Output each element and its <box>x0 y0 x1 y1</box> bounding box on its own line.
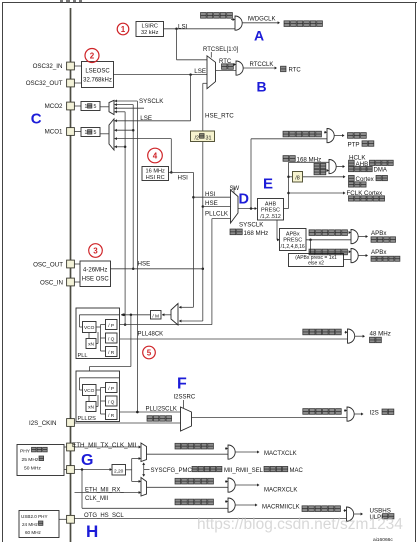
svg-text:HSE OSC: HSE OSC <box>82 277 110 283</box>
svg-text:APBx: APBx <box>371 249 387 256</box>
svg-text:LSE: LSE <box>194 68 206 75</box>
svg-text:MACRXCLK: MACRXCLK <box>264 487 297 493</box>
svg-text:SYSCFG_PMC: SYSCFG_PMC <box>151 468 193 474</box>
svg-text:2,20: 2,20 <box>114 468 124 474</box>
svg-text:LSI: LSI <box>178 23 188 30</box>
svg-text:50 MHz: 50 MHz <box>24 466 41 472</box>
svg-text:SW: SW <box>230 186 240 192</box>
svg-text:H: H <box>86 522 98 541</box>
svg-text:LSEOSC: LSEOSC <box>85 69 110 75</box>
svg-text:PLL48CK: PLL48CK <box>138 332 164 338</box>
svg-text:I2SSRC: I2SSRC <box>174 394 196 400</box>
svg-text:/ P: / P <box>108 323 114 329</box>
svg-text:16 MHz: 16 MHz <box>146 169 165 175</box>
svg-text:PLLI2S: PLLI2S <box>78 416 97 422</box>
svg-text:OSC_OUT: OSC_OUT <box>33 261 63 268</box>
svg-text:5: 5 <box>94 130 97 136</box>
svg-text:APBx: APBx <box>371 230 387 237</box>
svg-text:RTCSEL[1:0]: RTCSEL[1:0] <box>203 47 239 53</box>
svg-text:USB2.0 PHY: USB2.0 PHY <box>21 514 48 519</box>
svg-text:/8: /8 <box>295 176 300 182</box>
svg-text:/2: /2 <box>195 135 200 141</box>
svg-text:5: 5 <box>94 104 97 110</box>
svg-text:I2S: I2S <box>370 410 379 417</box>
svg-text:DMA: DMA <box>374 168 387 174</box>
svg-text:/ Q: / Q <box>108 399 115 405</box>
svg-text:/1,2,4,8,16: /1,2,4,8,16 <box>281 244 305 250</box>
svg-text:ai16066c: ai16066c <box>373 537 393 542</box>
svg-text:PLLI2SCLK: PLLI2SCLK <box>146 407 177 413</box>
svg-text:F: F <box>177 375 187 392</box>
svg-text:ETH_MII_RX_: ETH_MII_RX_ <box>85 487 124 493</box>
svg-text:SYSCLK: SYSCLK <box>139 98 164 105</box>
svg-text:1: 1 <box>85 104 88 110</box>
svg-text:/ M: / M <box>152 313 159 319</box>
svg-text:HSI RC: HSI RC <box>146 175 165 181</box>
svg-text:I2S_CKIN: I2S_CKIN <box>29 420 57 427</box>
svg-text:LSIRC: LSIRC <box>141 24 157 30</box>
svg-text:OSC32_IN: OSC32_IN <box>33 63 63 70</box>
svg-text:HSE: HSE <box>205 200 218 207</box>
svg-text:else x2: else x2 <box>308 261 324 267</box>
svg-text:60 MHz: 60 MHz <box>25 530 42 535</box>
svg-text:RTC: RTC <box>289 68 302 74</box>
svg-text:HSI: HSI <box>205 191 216 198</box>
svg-text:168 MHz: 168 MHz <box>297 156 322 163</box>
svg-text:PLLCLK: PLLCLK <box>205 211 229 218</box>
svg-text:ETH_MII_TX_CLK_MII: ETH_MII_TX_CLK_MII <box>72 442 137 449</box>
svg-text:/ R: / R <box>108 350 115 356</box>
svg-text:31: 31 <box>206 135 212 141</box>
svg-text:xN: xN <box>88 405 94 411</box>
svg-text:APBx: APBx <box>286 231 300 237</box>
svg-text:IWDGCLK: IWDGCLK <box>248 16 276 22</box>
svg-text:32.768kHz: 32.768kHz <box>83 78 112 84</box>
svg-text:https://blog.csdn.net/szm1234: https://blog.csdn.net/szm1234 <box>197 516 403 533</box>
svg-text:A: A <box>254 27 264 43</box>
svg-text:D: D <box>239 192 249 208</box>
svg-text:PTP: PTP <box>348 142 360 149</box>
svg-text:OSC_IN: OSC_IN <box>40 279 63 286</box>
svg-text:4-26MHz: 4-26MHz <box>83 268 107 274</box>
svg-text:CLK_MII: CLK_MII <box>85 496 109 502</box>
svg-text:HSI: HSI <box>178 174 189 181</box>
svg-text:24 MHz: 24 MHz <box>22 522 39 527</box>
svg-text:MAC: MAC <box>290 468 304 474</box>
svg-text:E: E <box>263 175 273 192</box>
svg-text:B: B <box>257 78 267 94</box>
svg-text:PRESC: PRESC <box>261 208 280 214</box>
svg-text:MACTXCLK: MACTXCLK <box>264 451 297 457</box>
svg-text:MCO1: MCO1 <box>45 129 63 136</box>
svg-text:G: G <box>81 452 93 469</box>
svg-text:C: C <box>31 111 42 128</box>
svg-text:4: 4 <box>153 151 158 160</box>
svg-text:1: 1 <box>85 130 88 136</box>
svg-text:168 MHz: 168 MHz <box>244 230 269 237</box>
svg-text:25 MHz: 25 MHz <box>22 457 39 463</box>
svg-text:AHB: AHB <box>265 201 277 207</box>
svg-text:5: 5 <box>147 348 152 357</box>
svg-text:MACRMIICLK: MACRMIICLK <box>262 504 300 510</box>
svg-text:VCO: VCO <box>84 325 95 331</box>
svg-text:48 MHz: 48 MHz <box>370 331 391 338</box>
svg-text:1: 1 <box>121 25 126 34</box>
svg-text:xN: xN <box>88 342 94 348</box>
svg-text:VCO: VCO <box>84 388 95 394</box>
svg-text:PLL: PLL <box>78 353 88 359</box>
svg-text:3: 3 <box>93 246 98 255</box>
svg-text:SYSCLK: SYSCLK <box>239 222 264 229</box>
svg-text:OTG_HS_SCL: OTG_HS_SCL <box>84 513 124 519</box>
svg-text:MII_RMII_SEL: MII_RMII_SEL <box>224 468 264 474</box>
svg-text:LSE: LSE <box>140 115 152 122</box>
svg-text:/1,2..512: /1,2..512 <box>260 214 281 220</box>
svg-text:32 kHz: 32 kHz <box>141 30 159 36</box>
svg-text:/ R: / R <box>108 413 115 419</box>
svg-text:2: 2 <box>90 51 95 60</box>
svg-text:HSE: HSE <box>138 261 151 268</box>
svg-text:MCO2: MCO2 <box>45 103 63 110</box>
svg-text:PRESC: PRESC <box>283 238 302 244</box>
svg-text:/ P: / P <box>108 386 114 392</box>
svg-text:RTCCLK: RTCCLK <box>250 62 274 68</box>
svg-text:OSC32_OUT: OSC32_OUT <box>26 80 63 87</box>
svg-text:/ Q: / Q <box>108 336 115 342</box>
svg-text:HSE_RTC: HSE_RTC <box>205 112 234 119</box>
svg-text:PHY: PHY <box>20 449 31 455</box>
